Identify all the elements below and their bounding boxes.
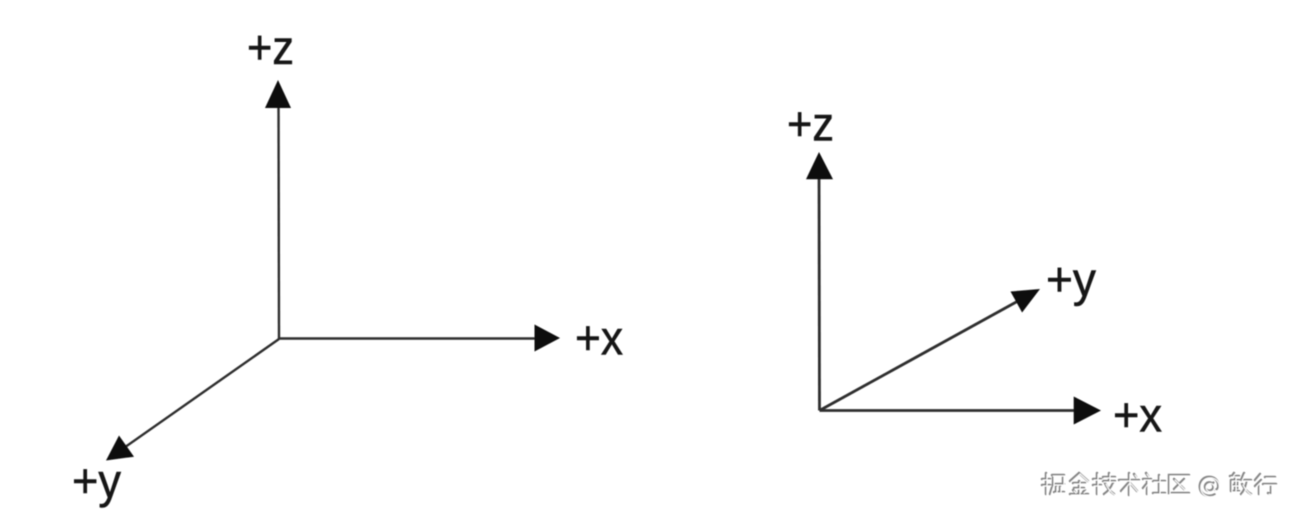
node arrowhead +x left: [535, 325, 561, 352]
node arrowhead +z left: [265, 80, 291, 108]
wire z-axis left: [277, 98, 280, 339]
watermark shadow layer: [1042, 473, 1276, 496]
svg-text:+x: +x: [575, 313, 623, 366]
node arrowhead +z right: [806, 152, 833, 179]
wire y-axis right: [820, 297, 1027, 411]
node arrowhead +y left: [106, 436, 134, 461]
watermark highlight layer: [1043, 474, 1277, 497]
wire y-axis left: [119, 339, 279, 451]
svg-text:+y: +y: [72, 456, 121, 509]
wire x-axis right: [820, 409, 1086, 412]
node arrowhead +x right: [1074, 397, 1101, 425]
svg-text:+x: +x: [1113, 390, 1162, 443]
svg-text:+z: +z: [787, 99, 834, 152]
svg-text:+z: +z: [247, 22, 294, 75]
svg-text:+y: +y: [1046, 254, 1096, 307]
wire z-axis right: [818, 168, 821, 411]
wire x-axis left: [279, 337, 545, 339]
node arrowhead +y right: [1011, 289, 1041, 313]
